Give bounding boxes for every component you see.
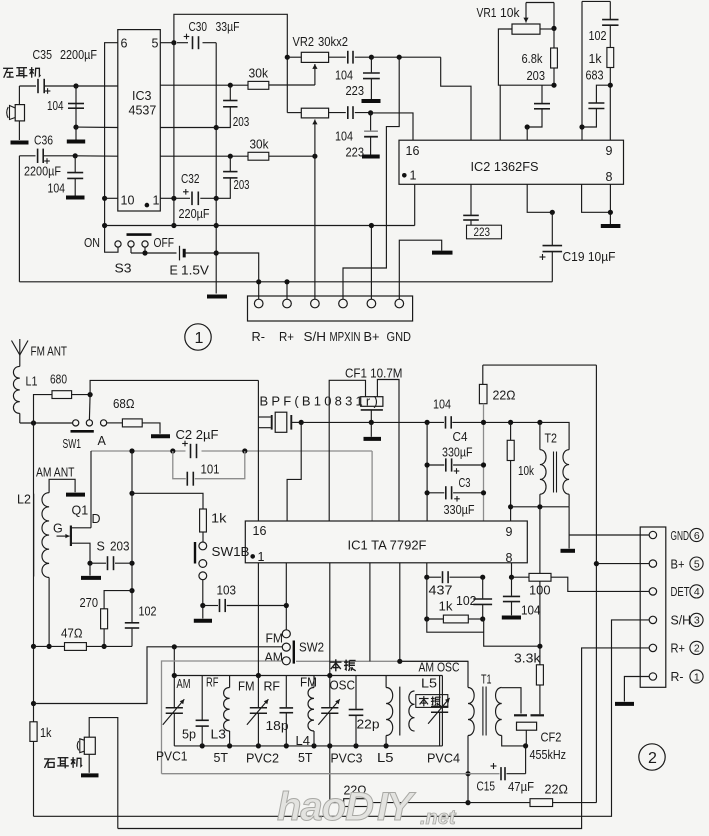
- potentiometer VR2 lower: [287, 112, 301, 114]
- svg-text:203: 203: [527, 69, 546, 83]
- capacitor 104 shunt second: [74, 156, 76, 172]
- wire IC2 pin1 riser: [414, 184, 416, 225]
- svg-text:C3: C3: [459, 476, 471, 490]
- svg-text:FM: FM: [266, 632, 284, 646]
- wire VR1 left loop: [498, 29, 554, 85]
- node C2 left: [129, 448, 134, 453]
- svg-text:104: 104: [335, 69, 353, 83]
- svg-text:1: 1: [694, 671, 700, 683]
- svg-text:C15: C15: [477, 780, 496, 794]
- svg-text:3.3k: 3.3k: [514, 652, 541, 666]
- node C35/104: [73, 83, 78, 88]
- wire B+5 row: [596, 563, 649, 565]
- wire IC1 pin8 column: [511, 563, 513, 577]
- svg-text:FM: FM: [300, 676, 317, 690]
- wire bottom row to C15: [162, 773, 500, 775]
- svg-text:FM ANT: FM ANT: [31, 345, 68, 359]
- wire gray riser to IC1: [371, 451, 373, 521]
- wire IC3 30k row1: [160, 84, 248, 86]
- wire CF1 left leg: [329, 380, 365, 521]
- node VR2b/223: [368, 110, 373, 115]
- wire BPF column to IC1 pin: [257, 380, 259, 521]
- svg-text:T1: T1: [481, 673, 492, 687]
- svg-text:IC1 TA 7792F: IC1 TA 7792F: [348, 539, 427, 553]
- resistor 68ohm: [107, 422, 123, 424]
- wire Q1 source: [71, 543, 90, 563]
- svg-text:R+: R+: [279, 330, 294, 344]
- svg-text:1k: 1k: [40, 726, 52, 740]
- svg-text:GND: GND: [671, 529, 690, 543]
- svg-text:18p: 18p: [266, 719, 289, 733]
- resistor 22ohm bottom left: [330, 802, 344, 804]
- svg-text:CF1 10.7M: CF1 10.7M: [345, 367, 403, 381]
- capacitor 223 second to ground: [370, 113, 372, 131]
- ground Q1 source: [89, 563, 91, 575]
- wire R+ bus: [118, 648, 649, 829]
- node C36/104: [73, 153, 78, 158]
- wiper arrow VR2 upper: [314, 64, 316, 85]
- svg-text:5T: 5T: [214, 751, 229, 765]
- svg-text:C35: C35: [33, 48, 53, 62]
- wire PVC3 to 22ohm: [329, 746, 331, 803]
- svg-text:47µF: 47µF: [508, 780, 534, 794]
- svg-text:FM: FM: [238, 680, 255, 694]
- capacitor C35 2200uF: [37, 79, 39, 93]
- svg-text:IC3: IC3: [132, 89, 152, 103]
- stem B+: [370, 226, 372, 300]
- capacitor 203 first: [229, 85, 231, 100]
- svg-text:103: 103: [217, 584, 237, 598]
- potentiometer VR2 upper: [287, 56, 301, 58]
- capacitor 683: [596, 85, 610, 102]
- capacitor 223 first to ground: [370, 57, 372, 72]
- wire 30k2 to S/H stem: [269, 155, 315, 157]
- inductor L5 inner: [399, 687, 401, 736]
- label left-earphone zuo-er-ji: [3, 67, 13, 69]
- wire IC1 pin to W2: [369, 563, 371, 662]
- node 30k row2/203: [228, 154, 233, 159]
- node 22ohm/T1 riser: [465, 800, 470, 805]
- resistor 1k: [607, 48, 614, 68]
- svg-text:5: 5: [152, 37, 159, 51]
- resistor 22ohm bottom right: [468, 802, 530, 804]
- resistor 30k first: [248, 81, 269, 89]
- wire T1 right bottom: [502, 736, 526, 746]
- node 104.6/225: [102, 223, 107, 228]
- svg-text:104: 104: [47, 99, 64, 113]
- wire BPF to IC1 second pin: [287, 422, 301, 521]
- capacitor C2 2uF: [190, 444, 192, 458]
- svg-text:6: 6: [694, 530, 700, 542]
- filter CF2 455kHz: [514, 714, 527, 716]
- node 216/127: [214, 125, 219, 130]
- capacitor C15 47uF: [491, 765, 497, 767]
- wire IC3 pin6 to switch rail: [105, 43, 118, 253]
- capacitor 104 series IF: [445, 416, 447, 428]
- node 132/590: [129, 588, 134, 593]
- capacitor 18p: [285, 676, 287, 708]
- svg-text:C32: C32: [181, 172, 200, 186]
- capacitor 102 mid: [482, 577, 484, 598]
- svg-text:IY: IY: [377, 785, 416, 829]
- svg-text:1: 1: [410, 169, 417, 183]
- svg-text:223: 223: [346, 84, 365, 98]
- svg-text:IC2 1362FS: IC2 1362FS: [471, 160, 539, 174]
- wire C30-left column x=173.9: [173, 43, 175, 226]
- wire C30 right column / E+ rail x=216: [215, 43, 217, 294]
- svg-text:1: 1: [258, 550, 265, 564]
- wire SW2 FM stem: [285, 606, 287, 630]
- wire IC2 pin from VR1 loop: [499, 85, 501, 140]
- capacitor C30 33uF: [192, 36, 194, 49]
- node 30k row1/203: [228, 83, 233, 88]
- node IF/T2: [537, 420, 542, 425]
- label benzhen FM osc: [335, 659, 337, 671]
- node 270 bottom: [102, 644, 107, 649]
- capacitor 22p: [355, 676, 357, 709]
- capacitor 203 source: [90, 562, 106, 564]
- wire IC1 pin to PVC3: [329, 563, 331, 676]
- node VR1 right: [551, 26, 556, 31]
- wire CF1 right leg: [377, 380, 399, 522]
- wire B+ column: [595, 365, 597, 802]
- capacitor 101 bypass: [173, 451, 186, 479]
- wire S/H bus bottom: [34, 620, 650, 816]
- wire IC3 30k row2: [160, 155, 248, 157]
- svg-text:437: 437: [429, 584, 453, 598]
- wire CF2 to C15: [525, 746, 527, 774]
- wire C35 row to IC3: [76, 85, 118, 87]
- node 6.8k bottom: [551, 83, 556, 88]
- svg-text:L5: L5: [377, 751, 394, 765]
- speaker left earphone: [18, 86, 20, 105]
- svg-text:22Ω: 22Ω: [493, 389, 516, 403]
- wire PVC1 feed: [173, 647, 175, 676]
- svg-text:9: 9: [506, 525, 513, 539]
- wire L2 bottom: [48, 578, 50, 647]
- wire VR1 top: [526, 2, 554, 4]
- svg-text:S/H: S/H: [671, 614, 692, 628]
- svg-text:S: S: [97, 540, 105, 554]
- svg-text:223: 223: [346, 146, 365, 160]
- inductor L1: [13, 366, 19, 413]
- wire right divider top: [582, 0, 610, 2]
- resistor 100: [512, 576, 530, 578]
- resistor 22ohm top: [482, 365, 484, 384]
- svg-text:VR1: VR1: [477, 6, 497, 20]
- capacitor C19 10uF: [551, 212, 553, 245]
- svg-text:C19 10µF: C19 10µF: [563, 250, 616, 264]
- wire VR2b row to IC2: [371, 113, 413, 140]
- node 10k bottom: [508, 504, 513, 509]
- svg-text:S/H: S/H: [304, 330, 327, 344]
- node 1k bottom: [608, 83, 613, 88]
- svg-text:30k: 30k: [250, 138, 270, 152]
- svg-text:RF: RF: [264, 680, 281, 694]
- svg-text:4: 4: [694, 586, 700, 598]
- svg-text:1.5V: 1.5V: [181, 264, 210, 278]
- svg-text:102: 102: [139, 605, 157, 619]
- wire 680 to SW1: [88, 395, 91, 420]
- svg-text:AM: AM: [265, 651, 284, 665]
- svg-text:203: 203: [233, 115, 250, 129]
- node 101 left: [170, 448, 175, 453]
- wire C2 row gray: [91, 450, 186, 452]
- svg-text:2200µF: 2200µF: [24, 165, 61, 179]
- battery drop to R- node: [216, 253, 259, 282]
- node 104.6/198: [102, 196, 107, 201]
- svg-text:104: 104: [335, 130, 353, 144]
- varcap PVC2: [257, 676, 259, 708]
- svg-text:47Ω: 47Ω: [61, 627, 83, 641]
- svg-text:270: 270: [80, 596, 99, 610]
- wire DET route: [551, 577, 649, 591]
- varcap PVC3: [329, 676, 331, 708]
- wire C2 column x=132: [131, 451, 133, 622]
- svg-text:GND: GND: [387, 330, 412, 344]
- node 132/563: [129, 561, 134, 566]
- wire antenna row: [20, 422, 73, 424]
- bar antenna AM: [49, 479, 75, 492]
- wire pin10 row: [105, 197, 118, 199]
- wire T2 bottom row: [511, 506, 569, 508]
- svg-text:PVC1: PVC1: [156, 750, 188, 764]
- wire W2 right to T1: [296, 660, 468, 662]
- stem GND: [399, 240, 441, 299]
- wire W2 inner: [162, 661, 283, 774]
- node 104 bottom: [73, 125, 78, 130]
- svg-text:3: 3: [694, 615, 700, 627]
- svg-text:S3: S3: [115, 262, 132, 276]
- resistor 10k: [510, 422, 512, 440]
- svg-text:203: 203: [234, 178, 250, 192]
- svg-text:330µF: 330µF: [442, 446, 473, 460]
- svg-text:G: G: [53, 522, 63, 536]
- node 33.5/646: [31, 644, 36, 649]
- resistor 270: [104, 591, 132, 609]
- svg-text:E: E: [170, 264, 178, 278]
- wire W1 to SW2 AM: [34, 647, 283, 704]
- capacitor 103: [203, 605, 218, 607]
- wire C36 left drop to R+ rail: [18, 156, 20, 282]
- node 680 right: [88, 392, 93, 397]
- node 101 right: [242, 448, 247, 453]
- rail tuning top: [174, 675, 442, 677]
- wire IC3 pin5 row: [160, 42, 174, 44]
- svg-text:C30: C30: [189, 20, 208, 34]
- svg-text:30kx2: 30kx2: [318, 35, 348, 49]
- svg-text:16: 16: [253, 524, 267, 538]
- svg-text:10: 10: [121, 194, 135, 208]
- svg-text:L1: L1: [26, 375, 38, 389]
- svg-text:1k: 1k: [211, 512, 227, 526]
- capacitor 102 top: [609, 1, 611, 19]
- potentiometer VR1: [512, 24, 540, 34]
- svg-text:C2 2µF: C2 2µF: [176, 428, 219, 442]
- node BPF out: [299, 420, 304, 425]
- svg-text:MPXIN: MPXIN: [330, 330, 361, 344]
- svg-text:A: A: [98, 434, 107, 448]
- svg-text:CF2: CF2: [541, 731, 562, 745]
- ground SW1B: [202, 606, 204, 619]
- varcap PVC4: [431, 706, 448, 708]
- svg-text:455kHz: 455kHz: [530, 748, 567, 762]
- capacitor 203 second: [229, 156, 231, 171]
- svg-text:6: 6: [121, 37, 128, 51]
- wire GND column: [568, 507, 570, 549]
- svg-text:R-: R-: [252, 330, 266, 344]
- ground below battery: [207, 295, 227, 299]
- node W1/PVC1 feed: [172, 644, 177, 649]
- svg-text:10k: 10k: [500, 6, 520, 20]
- node B+ tap: [594, 561, 599, 566]
- section label 1: [185, 324, 211, 350]
- svg-text:C36: C36: [34, 134, 53, 148]
- svg-text:L2: L2: [17, 493, 31, 507]
- wire C36 row to IC3: [75, 155, 118, 157]
- capacitor C36 2200uF: [37, 149, 39, 163]
- wire R- to ground: [624, 677, 649, 702]
- varcap PVC1: [173, 676, 175, 708]
- wire IC2 pin8 ground: [582, 184, 611, 212]
- svg-text:1k: 1k: [439, 600, 454, 614]
- wire C4C3 left column: [426, 422, 428, 521]
- svg-text:1: 1: [153, 194, 160, 208]
- svg-text:22p: 22p: [357, 718, 380, 732]
- battery E 1.5V: [179, 246, 181, 261]
- speaker right earphone: [84, 737, 95, 754]
- wire T1 right top to CF2: [501, 687, 503, 689]
- label right-earphone you-er-ji: [44, 758, 55, 760]
- svg-text:B+: B+: [364, 330, 380, 344]
- svg-text:101: 101: [201, 463, 220, 477]
- antenna FM ANT: [12, 341, 29, 356]
- svg-text:R-: R-: [671, 670, 684, 684]
- node pin5/C30 junction: [171, 40, 176, 45]
- svg-text:33µF: 33µF: [216, 20, 240, 34]
- capacitor 104 shunt left: [75, 86, 77, 127]
- resistor 3.3k: [536, 665, 543, 685]
- wire IC2 pin riser jog: [441, 57, 471, 140]
- svg-text:haoD: haoD: [277, 785, 373, 829]
- label 223 boxed: [467, 225, 502, 239]
- capacitor 5p: [201, 676, 203, 720]
- wiper arrow VR2 lower + S/H stem: [314, 120, 316, 132]
- node IF/10k: [508, 420, 513, 425]
- capacitor 223 below IC2: [470, 184, 472, 215]
- IC IC2 1362FS: [399, 140, 624, 184]
- wire B+ top link: [483, 364, 597, 366]
- capacitor C4 330uF: [427, 464, 444, 466]
- svg-text:2200µF: 2200µF: [60, 48, 97, 62]
- connector block 2: [640, 527, 666, 687]
- svg-text:102: 102: [589, 29, 607, 43]
- svg-text:D: D: [92, 512, 101, 526]
- svg-text:SW1: SW1: [63, 437, 82, 451]
- capacitor 203 third: [541, 85, 543, 103]
- svg-text:B+: B+: [671, 558, 685, 572]
- svg-text:2: 2: [694, 643, 700, 655]
- svg-text:SW2: SW2: [299, 641, 324, 655]
- IC op-amp IC3 4537: [118, 30, 161, 211]
- wiper arrow VR1: [525, 3, 527, 23]
- svg-text:680: 680: [50, 373, 67, 387]
- node 22/IF row: [481, 420, 486, 425]
- wire left long rail x=33.5: [33, 423, 35, 722]
- resistor 1k earphone: [30, 722, 37, 742]
- svg-text:AM OSC: AM OSC: [419, 661, 460, 675]
- connector block 1: [248, 296, 413, 321]
- node 216/253 battery junction: [214, 250, 219, 255]
- wire MPXIN path: [343, 57, 399, 299]
- resistor 1k mid: [426, 577, 428, 619]
- svg-text:DET: DET: [671, 585, 690, 599]
- wire VR2a row to IC2: [371, 56, 440, 58]
- wire Q1 drain: [71, 527, 91, 529]
- switch SW1B: [199, 542, 207, 550]
- svg-text:683: 683: [586, 69, 604, 83]
- node Q1 source: [87, 561, 92, 566]
- filter CF1 10.7M: [361, 397, 383, 407]
- svg-text:6.8k: 6.8k: [522, 52, 544, 66]
- wire GND6 row: [569, 534, 649, 536]
- switch SW2: [282, 630, 290, 638]
- svg-text:T2: T2: [545, 432, 558, 446]
- stem R-: [258, 282, 260, 299]
- stem R+: [286, 282, 288, 299]
- svg-text:104: 104: [48, 182, 66, 196]
- node 216/225: [214, 223, 219, 228]
- svg-text:OSC: OSC: [330, 679, 356, 693]
- wire 527 riser to IC2: [526, 127, 528, 140]
- wire 104-bottom row to IC3: [76, 126, 118, 128]
- inductor L3: [229, 676, 231, 688]
- wire T1 left bottom: [467, 736, 469, 774]
- svg-text:PVC3: PVC3: [331, 752, 363, 766]
- capacitor 102 shunt: [125, 622, 139, 624]
- label benzhen boxed: [416, 695, 448, 708]
- wire 437 row: [426, 563, 428, 577]
- svg-text:C4: C4: [453, 430, 468, 444]
- svg-text:16: 16: [406, 144, 420, 158]
- wire long row y=281.8: [19, 281, 552, 283]
- svg-text:220µF: 220µF: [179, 207, 210, 221]
- node 104/C4: [425, 420, 430, 425]
- box AM OSC unit: [385, 676, 387, 688]
- svg-text:L5: L5: [421, 677, 437, 691]
- svg-text:L3: L3: [211, 728, 227, 742]
- svg-text:223: 223: [474, 225, 491, 239]
- terminal bar below 104: [75, 127, 77, 139]
- svg-text:PVC4: PVC4: [427, 752, 460, 766]
- svg-text:5T: 5T: [298, 751, 313, 765]
- inductor L4: [313, 676, 315, 688]
- svg-text:2: 2: [648, 750, 657, 767]
- wire 3.3k column from T2: [539, 507, 541, 665]
- ground speaker: [88, 754, 90, 773]
- svg-text:1: 1: [195, 330, 204, 347]
- svg-text:68Ω: 68Ω: [113, 397, 135, 411]
- filter BPF B10831r: [258, 416, 270, 418]
- rail tuning bottom: [174, 745, 442, 747]
- wire SW1B to 103 node: [202, 580, 204, 606]
- svg-text:100: 100: [529, 584, 551, 598]
- wire IF main row: [301, 421, 444, 423]
- node 33.5/703: [31, 701, 36, 706]
- svg-text:9: 9: [606, 144, 613, 158]
- wire IC3 row y=127.5: [160, 127, 216, 129]
- svg-text:.net: .net: [420, 807, 457, 829]
